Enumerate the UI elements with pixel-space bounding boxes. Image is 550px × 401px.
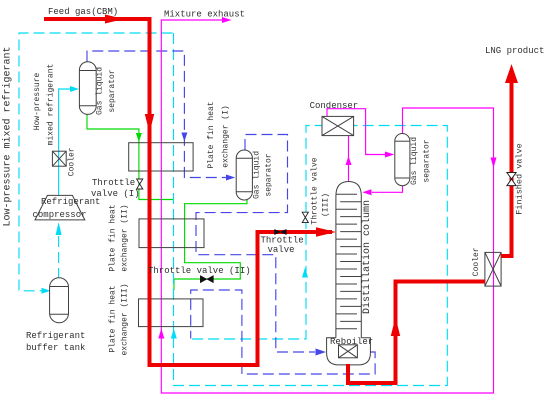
heat exchanger E2 plate fin I — [129, 143, 193, 171]
svg-text:(III): (III) — [322, 193, 331, 217]
arrow magenta right mixture exhaust — [222, 17, 232, 23]
svg-text:Cooler: Cooler — [472, 247, 481, 276]
svg-text:exchanger (II): exchanger (II) — [121, 204, 130, 271]
wire blue dashed sep2-top-to-HX2-to-reboiler — [196, 135, 315, 353]
svg-text:separator: separator — [108, 69, 117, 112]
wire magenta sep3-bottom-to-column — [372, 186, 403, 193]
separator V3 gas liquid separator 3 — [395, 134, 410, 186]
wire cyan dashed buffer-tank-to-compressor — [58, 236, 60, 278]
separator V1 gas liquid separator 1 — [79, 62, 96, 115]
wire green sep2-to-HX2-valve2-HX3 — [174, 200, 247, 290]
arrow red LNG product — [505, 64, 518, 83]
svg-text:separator: separator — [265, 153, 274, 196]
arrow magenta right into sep3 — [385, 152, 394, 158]
wire magenta column-top-to-condenser — [348, 136, 350, 183]
arrow blue right into sep2 — [226, 175, 235, 181]
svg-text:How-pressure: How-pressure — [33, 72, 42, 130]
reboiler E6 kettle — [327, 338, 371, 365]
arrow blue down into HX1 — [181, 133, 187, 142]
svg-text:LNG product: LNG product — [485, 46, 544, 56]
svg-text:compressor: compressor — [33, 210, 87, 220]
svg-text:Finished valve: Finished valve — [515, 143, 525, 214]
svg-text:Throttle valve (II): Throttle valve (II) — [148, 266, 251, 276]
valve main throttle on red line — [275, 229, 287, 234]
svg-text:Cooler: Cooler — [68, 147, 77, 176]
valve throttle II — [200, 276, 213, 283]
arrow cyan up near throttle valve III — [302, 268, 308, 278]
arrow magenta down on right loop — [491, 158, 497, 169]
compressor K1 refrigerant compressor — [35, 195, 85, 220]
wire cyan dashed main return loop — [174, 33, 448, 386]
arrow magenta up to condenser — [346, 156, 352, 165]
svg-text:Throttle: Throttle — [261, 236, 304, 246]
separator V2 gas liquid separator 2 — [236, 150, 252, 200]
arrow red down before HX1 — [145, 114, 154, 133]
arrow cyan right into buffer tank — [42, 288, 51, 294]
svg-text:Throttle: Throttle — [92, 178, 135, 188]
reboiler E6 heater box — [339, 345, 358, 358]
svg-text:Refrigerant: Refrigerant — [26, 331, 85, 341]
heat exchanger E4 plate fin III — [139, 299, 204, 327]
heat exchanger E3 plate fin II — [139, 219, 204, 248]
svg-text:Mixture exhaust: Mixture exhaust — [164, 10, 245, 20]
distillation column T1 shell — [336, 182, 361, 338]
svg-text:mixed refrigerant: mixed refrigerant — [47, 64, 56, 146]
wire magenta main loop mixture exhaust — [161, 20, 493, 393]
arrow red up to cooler — [391, 317, 400, 336]
arrow cyan up on return line — [171, 329, 177, 339]
arrow red feed gas — [105, 15, 124, 24]
svg-text:Gas liquid: Gas liquid — [96, 67, 105, 115]
svg-text:Refrigerant: Refrigerant — [41, 197, 100, 207]
svg-text:Plate fin heat: Plate fin heat — [207, 101, 216, 168]
svg-text:Gas liquid: Gas liquid — [253, 151, 262, 199]
wire magenta condenser-to-sep3 — [327, 109, 386, 155]
arrow magenta up on return riser — [158, 329, 164, 339]
arrow cyan right into sep1 — [70, 86, 79, 92]
svg-text:Distillation column: Distillation column — [361, 200, 373, 314]
wire cyan dashed left loop — [19, 33, 173, 291]
wire cyan solid compressor-to-sep1 — [59, 89, 70, 195]
cooler E7 right — [485, 252, 501, 286]
svg-text:Plate fin heat: Plate fin heat — [109, 204, 118, 271]
svg-text:separator: separator — [423, 139, 432, 182]
vessel refrigerant buffer tank — [50, 278, 69, 323]
wire blue dashed sep1-top-to-HX1-to-sep2 — [87, 51, 227, 178]
wire red LNG product line — [501, 83, 512, 256]
wire green refrigerant sep1-to-HX1 — [87, 112, 174, 200]
svg-text:Gas liquid: Gas liquid — [410, 137, 419, 185]
wire red feed gas main line — [44, 19, 332, 365]
svg-text:buffer tank: buffer tank — [26, 343, 85, 353]
arrow magenta left into column top — [362, 189, 371, 195]
svg-text:Feed gas(CBM): Feed gas(CBM) — [48, 7, 118, 17]
valve throttle III — [302, 212, 308, 222]
svg-text:valve: valve — [268, 245, 295, 255]
svg-text:exchanger (I): exchanger (I) — [222, 105, 231, 167]
svg-text:exchanger (III): exchanger (III) — [121, 283, 130, 355]
valve finished valve — [507, 173, 516, 186]
valve throttle I — [137, 179, 143, 189]
distillation column T1 trays — [336, 194, 361, 329]
svg-text:Low-pressure mixed refrigerant: Low-pressure mixed refrigerant — [2, 46, 14, 226]
cooler E1 left — [52, 151, 66, 166]
arrow cyan up into compressor — [56, 222, 62, 235]
arrow green down into HX1 — [136, 133, 142, 142]
wire blue dashed reboiler-return-to-HX3 — [191, 290, 375, 374]
wire red reboiler bottoms to cooler — [348, 282, 485, 384]
svg-text:Throttle valve: Throttle valve — [311, 157, 320, 224]
arrow red into distillation column — [316, 227, 336, 236]
svg-text:Plate fin heat: Plate fin heat — [109, 285, 118, 352]
condenser E5 — [322, 116, 354, 135]
svg-text:Reboiler: Reboiler — [330, 337, 373, 347]
svg-text:Condenser: Condenser — [310, 101, 359, 111]
arrow blue right into reboiler — [316, 349, 327, 356]
